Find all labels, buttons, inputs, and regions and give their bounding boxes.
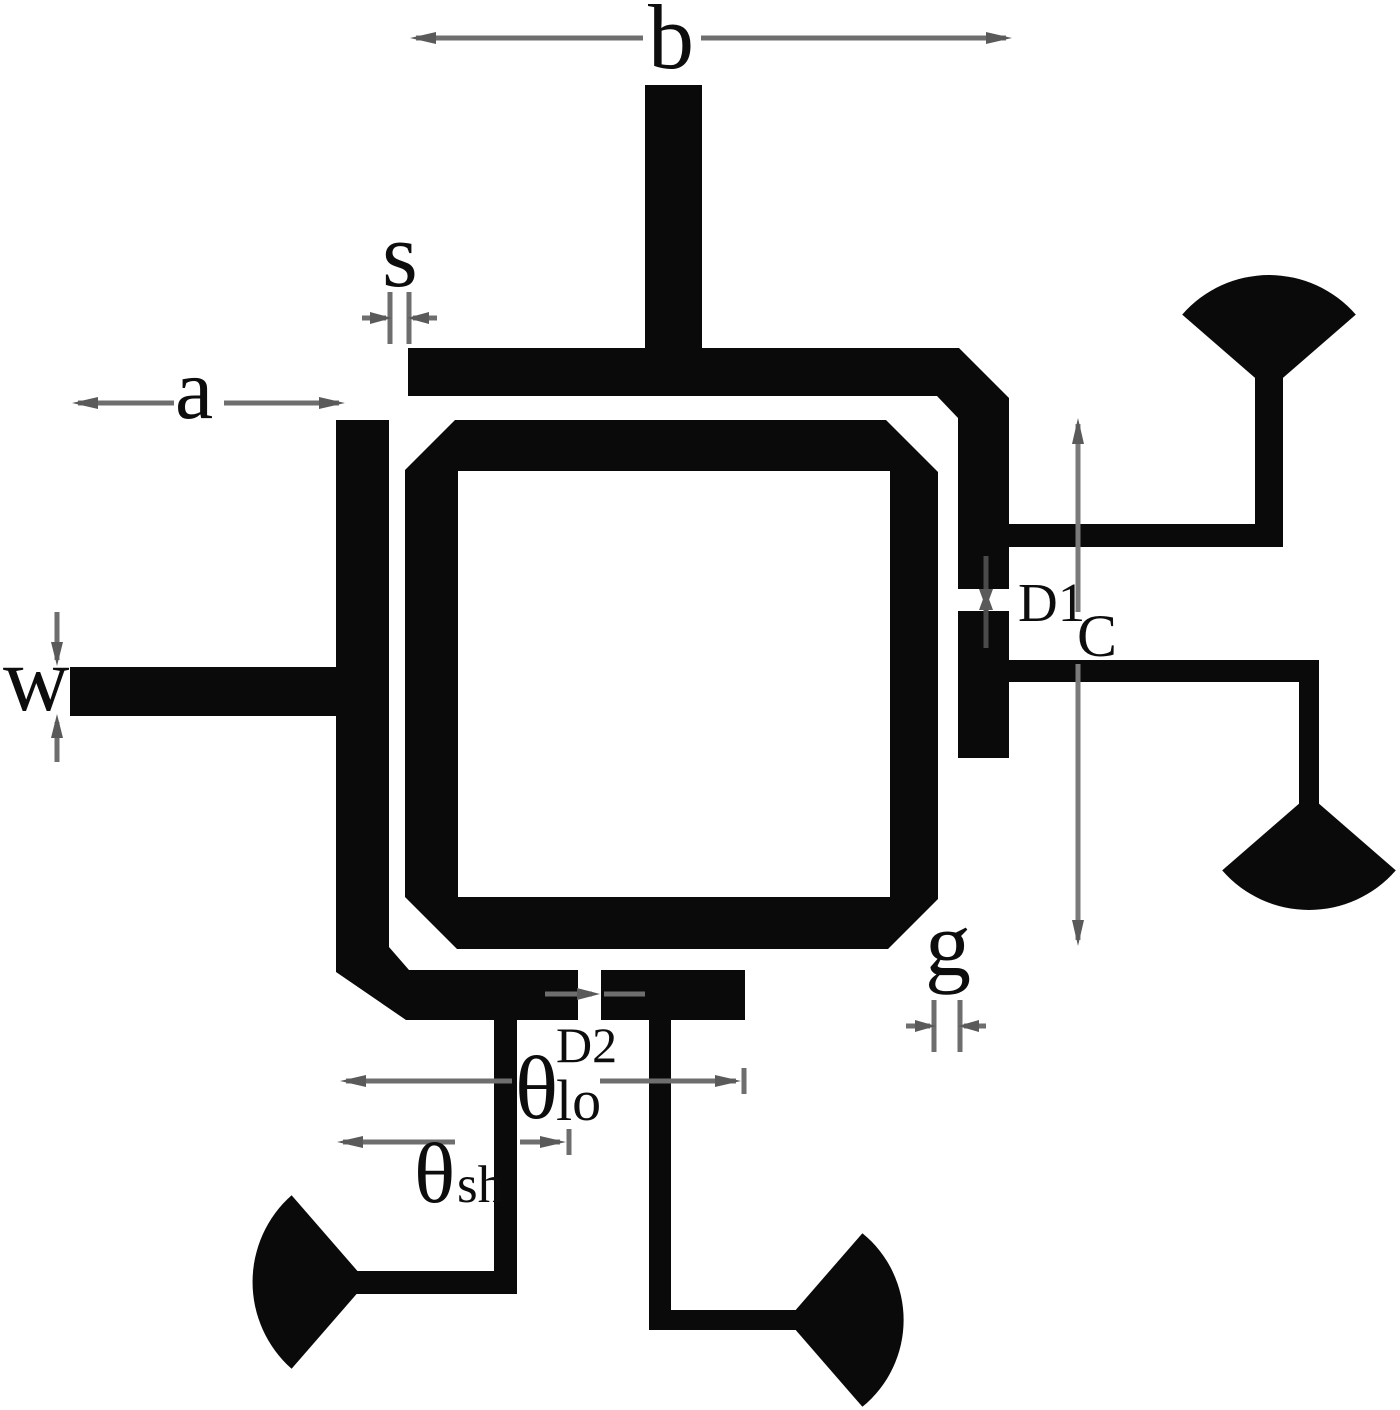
dimension a arrow xyxy=(78,401,339,406)
bottom stub 2 with stem xyxy=(649,1020,798,1330)
dimension theta-lo arrow xyxy=(346,1068,744,1094)
radial fan stub top-right xyxy=(1182,275,1356,390)
svg-text:θ: θ xyxy=(515,1039,558,1138)
svg-text:sh: sh xyxy=(457,1156,504,1214)
radial fan stub bottom-right xyxy=(1222,795,1396,910)
svg-text:D1: D1 xyxy=(1018,572,1085,633)
svg-text:D2: D2 xyxy=(556,1017,617,1073)
dimension g ticks and arrows xyxy=(906,1000,986,1052)
outer wrap right bar lower piece xyxy=(958,611,1009,758)
svg-text:b: b xyxy=(648,0,694,88)
svg-text:a: a xyxy=(175,341,213,437)
left feed stub (w) xyxy=(70,667,336,716)
lower right feed line xyxy=(1009,660,1319,682)
inner square ring resonator xyxy=(405,420,938,949)
dimension b arrow xyxy=(416,36,1006,41)
svg-text:lo: lo xyxy=(556,1068,601,1133)
dimension D2 arrow xyxy=(545,992,645,997)
dimension theta-sh arrow xyxy=(343,1129,569,1155)
dimension c arrow xyxy=(1076,424,1081,940)
top feed stub xyxy=(645,85,702,350)
svg-text:θ: θ xyxy=(414,1125,455,1221)
dimension s ticks and arrows xyxy=(362,292,437,344)
svg-text:w: w xyxy=(3,628,70,730)
svg-text:C: C xyxy=(1077,603,1117,669)
bottom stub 1 with stem xyxy=(356,1020,517,1294)
svg-text:g: g xyxy=(925,893,971,995)
outer wrap left bar with bottom bend xyxy=(336,420,578,1020)
lower right feed stem xyxy=(1299,682,1319,806)
radial fan stub bottom-left xyxy=(253,1195,367,1369)
outer wrap bottom bar right piece xyxy=(601,970,745,1020)
upper right feed line xyxy=(1009,524,1283,547)
dimension D1 arrows xyxy=(984,556,989,648)
upper right feed stem xyxy=(1255,375,1283,524)
dimension w arrows xyxy=(55,612,60,762)
outer wrap top bar with right bend xyxy=(408,348,1009,589)
radial fan stub bottom-center xyxy=(787,1233,904,1407)
svg-text:s: s xyxy=(382,204,418,306)
